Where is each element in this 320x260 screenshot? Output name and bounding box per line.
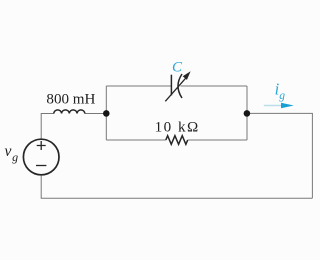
capacitor C (variable): straight plate	[170, 75, 172, 96]
capacitor curved plate	[178, 74, 182, 98]
resistor 10 kOhm (zigzag)	[166, 136, 188, 145]
wire: top edge right of capacitor	[181, 85, 248, 87]
minus sign	[36, 165, 46, 167]
wire: bottom edge left of resistor	[106, 139, 166, 141]
capacitor variable arrow	[165, 78, 186, 102]
current arrow ig (tail)	[264, 105, 284, 107]
current arrow ig (head)	[281, 103, 294, 108]
wire: bottom edge right of resistor	[188, 139, 247, 141]
plus sign	[37, 141, 46, 150]
svg-text:10 kΩ: 10 kΩ	[155, 120, 200, 136]
voltage source vg (circle)	[23, 139, 59, 175]
wire: coil to left node	[85, 113, 107, 115]
svg-text:C: C	[172, 59, 183, 75]
node right (junction dot)	[244, 110, 251, 117]
inductor coil 800 mH	[54, 110, 85, 114]
svg-text:800 mH: 800 mH	[46, 91, 95, 107]
wire: right node to right edge and down	[247, 113, 312, 198]
wire: source bottom, down and across bottom	[41, 175, 312, 199]
wire: right branch vertical	[246, 86, 248, 140]
wire: left branch vertical	[105, 86, 107, 140]
wire: top edge left of capacitor	[106, 85, 171, 87]
node left (junction dot)	[103, 110, 110, 117]
wire: source top to coil	[41, 114, 54, 140]
